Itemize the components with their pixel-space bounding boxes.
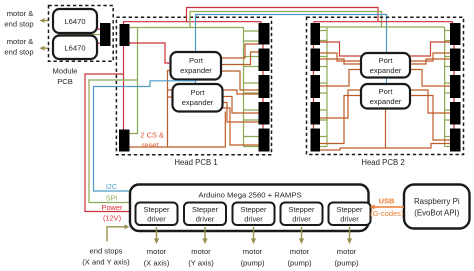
wire orange L1 to PE3 — [320, 42, 361, 56]
wire orange PE4 to L5 — [320, 96, 361, 144]
Arduino Mega box — [130, 185, 369, 232]
svg-text:Raspberry Pi: Raspberry Pi — [414, 197, 460, 206]
connector R2 — [259, 49, 270, 72]
svg-text:driver: driver — [292, 215, 311, 224]
connector R1 — [259, 23, 270, 45]
svg-text:motor: motor — [337, 247, 357, 256]
svg-text:(G-codes): (G-codes) — [370, 209, 404, 218]
wire red daisy links right column PCB2 — [453, 45, 455, 129]
connector RR4 — [450, 102, 461, 125]
wire orange bar C to PE2 bottom — [130, 112, 226, 148]
wire green stubs right bars PCB2 — [445, 31, 450, 147]
connector RR5 — [450, 129, 461, 152]
svg-text:Stepper: Stepper — [144, 205, 170, 214]
wire orange PE1 right to R1 — [221, 44, 259, 58]
connector L1 — [311, 23, 321, 45]
wire orange L2 to PE3 — [320, 59, 361, 64]
svg-text:Head PCB 2: Head PCB 2 — [361, 158, 404, 167]
Head PCB 1 dashed box — [116, 17, 271, 155]
port expander U1 (PE1) — [171, 52, 222, 80]
svg-text:PCB: PCB — [57, 77, 73, 86]
svg-text:end stops: end stops — [90, 247, 123, 256]
wire green inter-PCB jumper — [190, 12, 382, 28]
wire red daisy links left column PCB2 — [313, 45, 315, 129]
svg-text:Port: Port — [191, 88, 206, 97]
wire orange PE2 right to R4 — [223, 103, 259, 123]
wire orange PE1 right to R3 — [221, 71, 259, 90]
svg-text:USB: USB — [379, 197, 395, 206]
svg-text:(X and Y axis): (X and Y axis) — [82, 258, 130, 267]
wire orange PE2 to R5 — [223, 108, 259, 145]
wire blue I2C to Arduino — [94, 81, 196, 191]
wire orange PE4 bottom bus — [320, 109, 450, 151]
svg-text:motor: motor — [147, 247, 167, 256]
label: motor (Y axis) — [188, 247, 214, 268]
label: Module PCB — [53, 67, 78, 87]
arrow motor 2 — [202, 227, 207, 244]
svg-text:motor: motor — [243, 247, 263, 256]
svg-text:driver: driver — [340, 215, 359, 224]
connector RR2 — [450, 49, 461, 72]
svg-text:(12V): (12V) — [103, 214, 121, 223]
wire green SPI rail PCB1 — [130, 28, 244, 147]
wire orange PE2 right to R4 top — [223, 97, 259, 114]
wire orange RR2 to PE3 — [410, 59, 450, 64]
wire orange PE1 to PE2 left pins — [168, 71, 173, 148]
wire green between L6470s to connector — [58, 34, 101, 36]
driver L6470 #1 — [53, 9, 97, 33]
svg-text:motor: motor — [191, 247, 211, 256]
wire red L6470#1 to connector — [96, 29, 101, 30]
connector L4 — [311, 102, 321, 125]
wire orange PE4 to L4 — [320, 90, 361, 118]
stepper driver 3 — [233, 203, 275, 226]
connector bar B (Head PCB1 top-left) — [120, 24, 130, 46]
label: motor (pump) 3 — [334, 247, 359, 268]
svg-text:expander: expander — [370, 66, 402, 75]
wire red bar B to PE1 — [130, 43, 171, 63]
wire blue PE3-PE4 link — [386, 78, 388, 85]
wire orange RR3 to PE3 — [410, 70, 450, 87]
arrow motor 5 — [347, 227, 352, 244]
wire red power rail PCB2 — [314, 22, 453, 25]
label: motor (X axis) — [144, 247, 170, 268]
wire green SPI to Arduino — [89, 80, 138, 203]
Module PCB dashed box — [49, 6, 114, 62]
wire red L6470#2 to connector — [96, 43, 101, 44]
svg-text:L6470: L6470 — [64, 17, 85, 26]
wire orange RR2 top to PE3 — [410, 53, 450, 61]
wire orange RR1 to PE3 — [410, 42, 450, 56]
svg-text:Head PCB 1: Head PCB 1 — [174, 158, 217, 167]
connector L3 — [311, 75, 321, 98]
svg-text:(X axis): (X axis) — [144, 259, 170, 268]
connector bar A (module) — [100, 23, 111, 46]
wire orange L2 top to PE3 — [320, 53, 361, 61]
svg-text:L6470: L6470 — [64, 44, 85, 53]
svg-text:reset: reset — [142, 141, 158, 150]
connector L5 — [311, 129, 321, 152]
wire green stubs left bars PCB2 — [320, 31, 327, 147]
label: end stops (X and Y axis) — [82, 247, 130, 267]
Head PCB 2 dashed box — [307, 17, 464, 154]
stepper driver 1 — [136, 203, 178, 226]
wire blue I2C trunk and inter-PCB jumper — [196, 15, 387, 54]
wire orange PE1 right to R2 — [221, 52, 259, 65]
wire red power rail PCB1 — [124, 22, 262, 25]
stepper driver 2 — [184, 203, 226, 226]
wire green stubs to right bars PCB1 — [244, 31, 259, 147]
stepper driver 5 — [329, 203, 371, 226]
svg-text:(Y axis): (Y axis) — [188, 259, 214, 268]
port expander U2 (PE2) — [173, 84, 223, 112]
svg-text:Port: Port — [189, 56, 204, 65]
connector R5 — [259, 129, 270, 152]
svg-text:Port: Port — [379, 87, 394, 96]
connector L2 — [311, 49, 321, 72]
wire red inter-PCB jumper — [187, 8, 379, 22]
connector RR1 — [450, 23, 461, 45]
connector bar C (Head PCB1 bottom-left) — [119, 130, 130, 152]
connector RR3 — [450, 75, 461, 98]
stepper driver 4 — [281, 203, 323, 226]
svg-text:(pump): (pump) — [287, 259, 312, 268]
svg-text:motor: motor — [290, 247, 310, 256]
label: motor & end stop (top) — [4, 9, 33, 29]
svg-text:motor &: motor & — [7, 37, 34, 46]
svg-text:expander: expander — [180, 66, 212, 75]
label: motor & end stop (bottom) — [4, 37, 33, 57]
svg-text:Arduino Mega 2560 + RAMPS: Arduino Mega 2560 + RAMPS — [198, 191, 301, 200]
svg-text:driver: driver — [147, 215, 166, 224]
wire end stops arrow into Arduino — [107, 224, 130, 241]
wire orange PE4 to RR4 — [410, 90, 450, 113]
port expander U3 (PE3) — [361, 53, 410, 78]
wire red Power to Arduino — [85, 74, 132, 212]
connector R4 — [259, 102, 270, 125]
svg-text:Module: Module — [53, 67, 78, 76]
svg-text:Stepper: Stepper — [192, 205, 218, 214]
svg-text:(EvoBot API): (EvoBot API) — [414, 209, 460, 218]
svg-text:I2C: I2C — [106, 182, 117, 191]
label: 2 CS & reset — [141, 131, 164, 150]
wire orange L3 to PE3 — [320, 70, 361, 87]
Raspberry Pi box — [404, 185, 470, 229]
svg-text:end stop: end stop — [4, 48, 33, 57]
svg-text:Stepper: Stepper — [241, 205, 267, 214]
svg-text:Stepper: Stepper — [289, 205, 315, 214]
svg-text:driver: driver — [244, 215, 263, 224]
arrow motor 3 — [251, 227, 256, 244]
arrow to motor & end stop (top) — [40, 18, 50, 23]
svg-text:Stepper: Stepper — [337, 205, 363, 214]
wire green SPI rail PCB2 — [320, 27, 445, 147]
svg-text:expander: expander — [370, 97, 402, 106]
arrow to motor & end stop (bottom) — [40, 46, 50, 51]
wire orange PE4 to RR5 — [410, 96, 450, 141]
svg-text:end stop: end stop — [4, 20, 33, 29]
arrow motor 4 — [299, 227, 304, 244]
wire red daisy links right column PCB1 — [262, 45, 264, 129]
svg-text:SPI: SPI — [106, 194, 118, 203]
wire orange PE2 right to R3 — [223, 90, 259, 94]
label: motor (pump) 1 — [240, 247, 265, 268]
port expander U4 (PE4) — [361, 84, 410, 109]
svg-text:(pump): (pump) — [334, 259, 359, 268]
arrow motor 1 — [154, 227, 159, 244]
wire blue PE1-PE2 link — [195, 80, 197, 85]
wire red bar B down to bar C — [123, 46, 125, 130]
label: motor (pump) 2 — [287, 247, 312, 268]
svg-text:expander: expander — [182, 98, 214, 107]
svg-text:motor &: motor & — [7, 9, 34, 18]
svg-text:Port: Port — [379, 56, 394, 65]
svg-text:(pump): (pump) — [240, 259, 265, 268]
connector R3 — [259, 75, 270, 98]
svg-text:2 CS &: 2 CS & — [141, 131, 164, 140]
driver L6470 #2 — [53, 36, 97, 60]
svg-text:Power: Power — [102, 203, 123, 212]
svg-text:driver: driver — [196, 215, 215, 224]
wire USB arrow Raspberry Pi to Arduino — [370, 205, 405, 210]
